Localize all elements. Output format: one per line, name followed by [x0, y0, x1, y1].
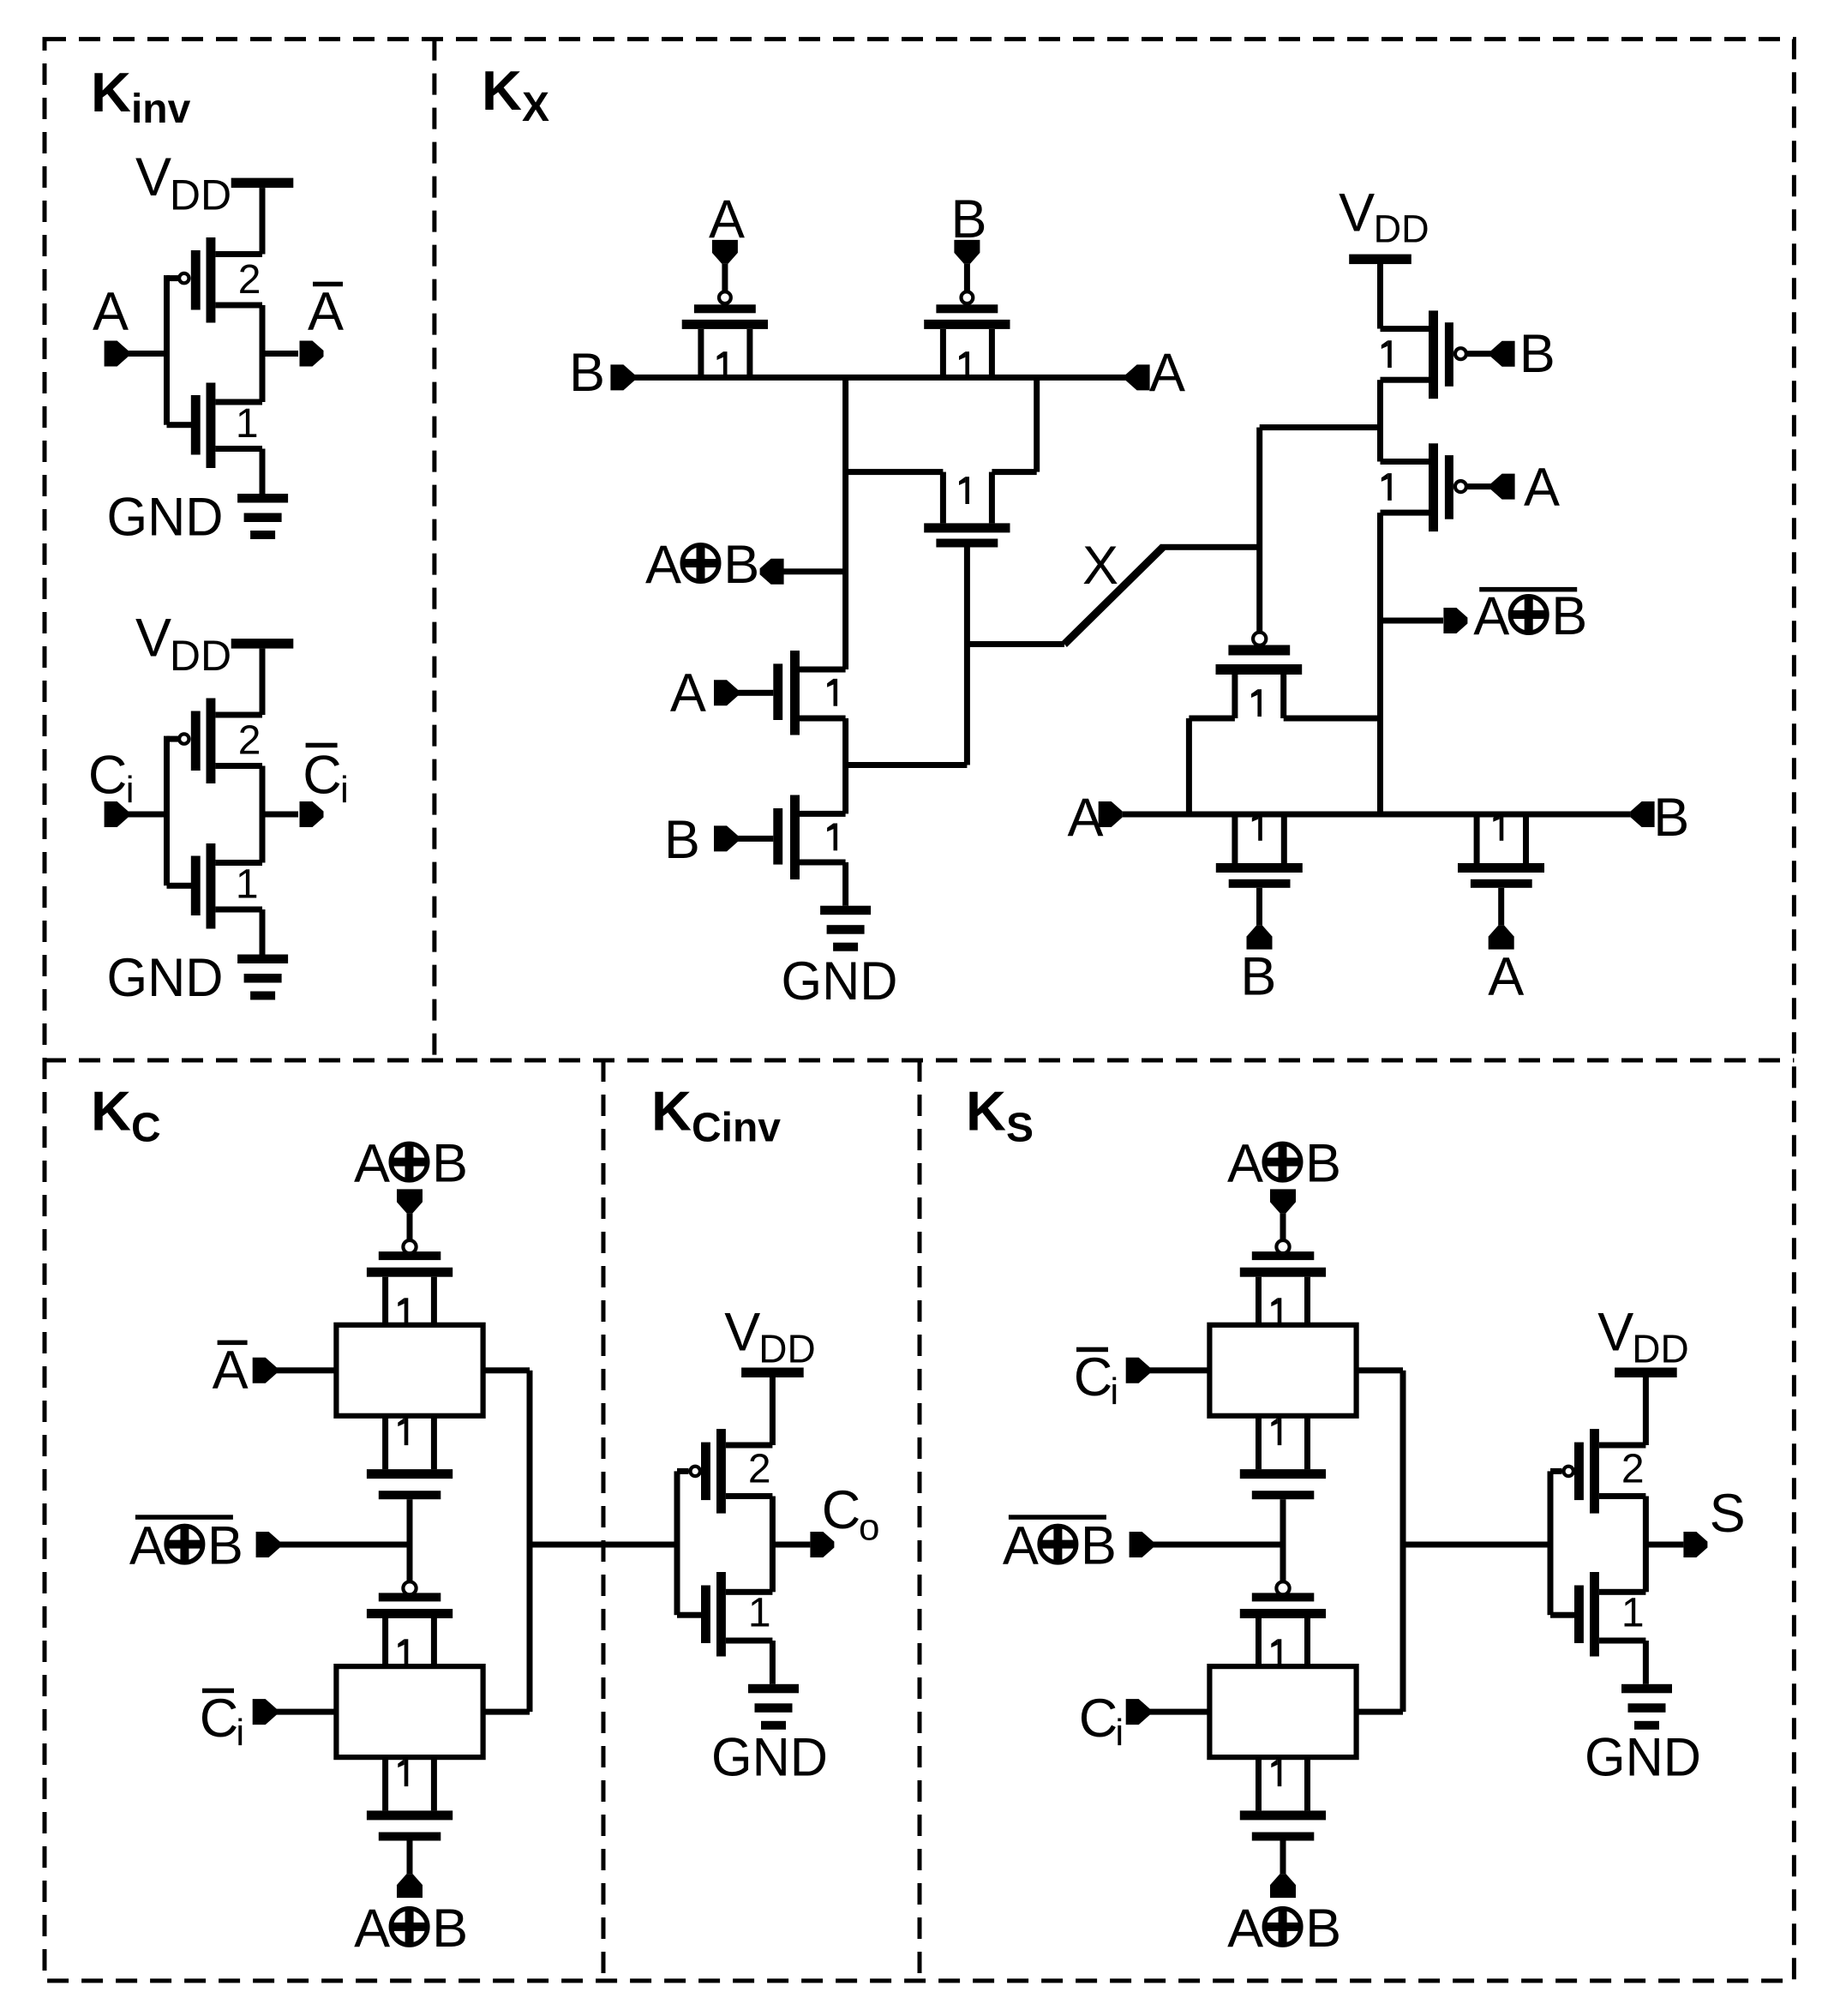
section label K_S [966, 1080, 1034, 1151]
svg-text:A: A [1227, 1899, 1263, 1959]
svg-text:C: C [200, 1689, 239, 1749]
GND label (K_X) [782, 951, 898, 1011]
svg-text:1: 1 [236, 401, 259, 447]
nmos 1 (K_S inverter U4) [1574, 1572, 1645, 1657]
svg-text:B: B [1653, 788, 1689, 848]
svg-text:B: B [723, 535, 759, 595]
width label 1 (TG2 nmos, K_S) [1271, 1759, 1281, 1786]
wire VDD to pmos (K_Cinv inverter U3) [770, 1377, 776, 1445]
svg-text:V: V [135, 608, 171, 668]
svg-text:2: 2 [238, 718, 261, 764]
wire VDD to inverter U1 PMOS source [260, 188, 266, 254]
svg-text:GND: GND [711, 1728, 828, 1788]
width label 1 (M4) [959, 351, 969, 379]
svg-text:DD: DD [1632, 1327, 1688, 1371]
transmission gate TG1 body (K_C) [336, 1325, 482, 1416]
svg-text:A: A [1149, 343, 1185, 403]
svg-text:X: X [1082, 536, 1118, 596]
svg-text:B: B [1551, 586, 1587, 646]
svg-text:A: A [93, 282, 129, 342]
wire node X (diagonal) [967, 544, 1259, 647]
wire input to gates (inverter U2) [128, 736, 191, 889]
transmission gate TG1 pmos (K_C) [367, 1240, 453, 1325]
svg-text:A: A [308, 282, 344, 342]
input port A (left of node n2) [1068, 788, 1123, 848]
svg-text:2: 2 [748, 1447, 771, 1492]
wire VDD to pmos (K_S inverter U4) [1643, 1377, 1649, 1445]
svg-text:DD: DD [170, 632, 231, 680]
input port A (gate of M1) [670, 663, 773, 723]
node label X [1082, 536, 1118, 596]
pmos M4 (gate B, horizontal) [924, 291, 1010, 377]
svg-text:GND: GND [107, 948, 224, 1008]
VDD symbol (inverter U2) [135, 608, 293, 680]
output port (K_S inverter U4) [1683, 1484, 1745, 1557]
wire select to gates (K_C) [279, 1542, 410, 1548]
wire TG2 nmos gate down (K_S) [1280, 1841, 1286, 1875]
svg-text:DD: DD [170, 171, 231, 219]
input port Ci-bar (K_S TG1) [1074, 1347, 1150, 1413]
wire node n2 (bottom row) [1123, 812, 1631, 818]
width label 1 (TG1 pmos, K_C) [398, 1298, 408, 1325]
svg-text:B: B [432, 1899, 468, 1959]
width label 1 (TG2 nmos, K_C) [398, 1759, 408, 1786]
input port B (right of node n2) [1631, 788, 1690, 848]
wire output node (K_S inverter U4) [1643, 1497, 1684, 1593]
svg-text:GND: GND [782, 951, 898, 1011]
wire TG2 right to rail (K_S) [1357, 1709, 1403, 1715]
wire A to M3 gate bubble [722, 264, 728, 291]
svg-text:GND: GND [107, 488, 224, 548]
input port Ci-bar (K_C TG2) [200, 1689, 277, 1754]
wire output rail (K_C) [527, 1371, 533, 1712]
width label 1 (M8) [1251, 689, 1262, 717]
transmission gate TG1 nmos (K_S) [1240, 1416, 1326, 1499]
width label 1 (M2) [827, 824, 837, 851]
output port A-xor-B [645, 535, 846, 595]
GND label (K_Cinv inverter U3) [711, 1728, 828, 1788]
svg-text:C: C [1079, 1689, 1118, 1749]
transmission gate TG2 nmos (K_C) [367, 1757, 453, 1840]
nmos 1 (K_Cinv inverter U3) [701, 1572, 772, 1657]
svg-text:V: V [135, 147, 171, 207]
pmos M3 (gate A, horizontal) [682, 291, 768, 377]
svg-text:A: A [1227, 1134, 1263, 1194]
width label 1 (K_Cinv inverter U3) [748, 1591, 771, 1636]
wire TG1 right to rail (K_S) [1357, 1367, 1403, 1373]
svg-text:o: o [859, 1506, 879, 1548]
wire TG1 left (K_S) [1149, 1367, 1209, 1373]
svg-text:1: 1 [748, 1591, 771, 1636]
wire NMOS source to ground (inverter U1) [260, 449, 266, 495]
wire TG2 left (K_C) [276, 1709, 336, 1715]
nmos 1 (inverter U1 pull-down) [191, 383, 262, 469]
wire to TG1 pmos gate (K_S) [1280, 1213, 1286, 1239]
width label 1 (TG1 nmos, K_C) [398, 1418, 408, 1445]
wire M8 left lead down to node n2 [1186, 716, 1235, 815]
pmos M7 (gate A, right column) [1381, 443, 1492, 531]
pmos 2 (inverter U1 pull-up) [179, 237, 262, 323]
section label K_Cinv [651, 1080, 781, 1151]
GND label (inverter U2) [107, 948, 224, 1008]
section label K_inv [91, 61, 191, 132]
svg-text:i: i [126, 769, 135, 811]
input port A (inverter U1) [93, 282, 129, 367]
wire inverter input gates (K_Cinv inverter U3) [674, 1468, 702, 1618]
input port B (gate of M2) [664, 810, 773, 870]
wire to TG1 pmos gate (K_C) [407, 1213, 413, 1239]
transmission gate TG2 pmos (K_S) [1240, 1581, 1326, 1666]
wire M5 gate down to nmos chain [964, 547, 970, 765]
wire M1 source to M2 drain [842, 718, 848, 813]
svg-text:B: B [1081, 1516, 1117, 1576]
width label 1 (TG2 pmos, K_S) [1271, 1639, 1281, 1666]
svg-text:DD: DD [1374, 207, 1429, 251]
pmos 2 (K_Cinv inverter U3) [691, 1429, 773, 1514]
svg-text:A: A [1473, 586, 1509, 646]
nmos M1 (gate A) [773, 651, 845, 735]
pmos M8 (xnor pull-up pair, gate X) [1216, 633, 1303, 718]
pmos 2 (inverter U2 pull-up) [179, 699, 262, 784]
svg-text:A: A [354, 1134, 390, 1194]
output port Ci-bar (inverter U2) [300, 743, 349, 827]
ground (inverter U2) [237, 955, 288, 1000]
wire TG2 left (K_S) [1149, 1709, 1209, 1715]
width label 1 (inverter U2 nmos) [236, 862, 259, 908]
output port A-xor-B-bar [1381, 586, 1588, 646]
wire TG2 nmos gate down (K_C) [407, 1841, 413, 1875]
width label 1 (M3) [717, 351, 728, 379]
wire nmos to ground (K_S inverter U4) [1643, 1641, 1649, 1684]
width label 1 (M6) [1381, 340, 1392, 368]
svg-text:B: B [1519, 324, 1555, 384]
svg-text:B: B [569, 343, 605, 403]
wire TG1 nmos gate to TG2 pmos gate (K_S) [1280, 1499, 1286, 1581]
width label 1 (K_S inverter U4) [1621, 1591, 1645, 1636]
svg-text:i: i [1115, 1712, 1124, 1754]
VDD symbol (K_S inverter U4) [1597, 1303, 1689, 1378]
input port A-bar (K_C TG1) [213, 1341, 277, 1401]
svg-text:B: B [1240, 947, 1276, 1007]
wire TG1 nmos gate to TG2 pmos gate (K_C) [407, 1499, 413, 1581]
svg-text:A: A [1003, 1516, 1039, 1576]
wire TG1 right to rail (K_C) [483, 1367, 530, 1373]
input port B (left of M3) [569, 343, 634, 403]
svg-text:A: A [1488, 947, 1524, 1007]
ground (K_S inverter U4) [1621, 1684, 1672, 1730]
input port A-xor-B (top gate, K_S) [1227, 1134, 1341, 1214]
wire xnor rail (M7 down to output row) [1377, 513, 1383, 817]
GND label (K_S inverter U4) [1585, 1728, 1701, 1788]
wire nmos to ground (K_Cinv inverter U3) [770, 1641, 776, 1684]
input port A (gate of M7) [1491, 458, 1560, 518]
nmos 1 (inverter U2 pull-down) [191, 843, 262, 929]
svg-text:A: A [354, 1899, 390, 1959]
svg-text:2: 2 [1621, 1447, 1645, 1492]
svg-text:B: B [432, 1134, 468, 1194]
svg-text:C: C [822, 1480, 861, 1540]
input port A (top, gate of M3) [709, 189, 745, 264]
width label 1 (M1) [827, 679, 837, 706]
wire node n1 (B-A pass row) [633, 375, 1126, 381]
svg-text:i: i [236, 1712, 244, 1754]
input port A-xor-B (bottom gate, K_C) [354, 1874, 468, 1959]
wire input to gates (inverter U1) [128, 275, 191, 428]
wire NMOS source to ground (inverter U2) [260, 909, 266, 955]
VDD symbol (K_X) [1339, 183, 1429, 264]
input port B (gate of M6) [1491, 324, 1555, 384]
svg-text:GND: GND [1585, 1728, 1701, 1788]
svg-text:S: S [1710, 1484, 1746, 1544]
svg-text:C: C [1074, 1347, 1113, 1407]
ground (inverter U1) [237, 494, 288, 539]
transmission gate TG2 body (K_C) [336, 1666, 482, 1757]
transmission gate TG1 body (K_S) [1209, 1325, 1356, 1416]
nmos M10 (gate A, bottom) [1458, 814, 1544, 888]
input port A (gate of M10) [1488, 888, 1524, 1007]
wire output rail (K_S) [1400, 1371, 1406, 1712]
wire TG2 right to rail (K_C) [483, 1709, 530, 1715]
wire node X to rail branch [1256, 424, 1380, 631]
wire TG1 left (K_C) [276, 1367, 336, 1373]
transmission gate TG2 body (K_S) [1209, 1666, 1356, 1757]
width label 2 (inverter U2 pmos) [238, 718, 261, 764]
width label 2 (K_Cinv inverter U3) [748, 1447, 771, 1492]
wire B to M4 gate bubble [964, 264, 970, 291]
width label 1 (M9) [1252, 813, 1262, 841]
wire VDD to M6 [1377, 261, 1383, 329]
transmission gate TG2 pmos (K_C) [367, 1581, 453, 1666]
wire M5 left lead to n1 drop [846, 469, 944, 475]
input port A-xor-B (bottom gate, K_S) [1227, 1874, 1341, 1959]
wire M6 to M7 [1377, 380, 1383, 461]
wire node X tap to nmos junction [846, 762, 968, 768]
wire M5 right lead up to node n1 [992, 377, 1040, 475]
svg-text:A: A [1068, 788, 1104, 848]
pmos M6 (gate B, right column) [1381, 310, 1492, 399]
width label 1 (TG1 pmos, K_S) [1271, 1298, 1281, 1325]
svg-text:i: i [1110, 1371, 1118, 1413]
svg-text:A: A [213, 1341, 249, 1401]
wire output node (K_Cinv inverter U3) [770, 1497, 811, 1593]
width label 2 (K_S inverter U4) [1621, 1447, 1645, 1492]
ground (K_X) [820, 906, 871, 951]
width label 2 (inverter U1 pmos) [238, 257, 261, 303]
svg-text:B: B [1305, 1134, 1341, 1194]
output port (K_Cinv inverter U3) [810, 1480, 879, 1557]
transmission gate TG1 nmos (K_C) [367, 1416, 453, 1499]
wire inverter input gates (K_S inverter U4) [1548, 1468, 1575, 1618]
svg-text:V: V [724, 1303, 760, 1363]
input port A-xor-B-bar (K_C select) [129, 1515, 280, 1575]
svg-text:DD: DD [758, 1327, 815, 1371]
svg-text:C: C [88, 746, 127, 806]
wire select to gates (K_S) [1153, 1542, 1283, 1548]
svg-text:B: B [1305, 1899, 1341, 1959]
svg-text:i: i [340, 769, 349, 811]
input port A (right end of pass row) [1126, 343, 1185, 403]
input port C (inverter U2) [88, 746, 135, 827]
svg-text:1: 1 [236, 862, 259, 908]
svg-text:1: 1 [1621, 1591, 1645, 1636]
input port Ci (K_S TG2) [1079, 1689, 1150, 1754]
wire M2 source to ground [842, 862, 848, 906]
wire output node (inverter U1) [260, 305, 299, 402]
wire mux output to inverter input (K_S inverter U4) [1403, 1542, 1550, 1548]
svg-text:2: 2 [238, 257, 261, 303]
wire VDD to inverter U2 PMOS source [260, 649, 266, 715]
width label 1 (inverter U1 nmos) [236, 401, 259, 447]
section label K_X [482, 59, 549, 130]
transmission gate TG1 pmos (K_S) [1240, 1240, 1326, 1325]
width label 1 (TG1 nmos, K_S) [1271, 1418, 1281, 1445]
svg-text:A: A [1524, 458, 1560, 518]
VDD symbol (inverter U1) [135, 147, 293, 219]
svg-text:A: A [670, 663, 706, 723]
nmos M9 (gate B, bottom) [1216, 814, 1303, 888]
transmission gate TG2 nmos (K_S) [1240, 1757, 1326, 1840]
width label 1 (TG2 pmos, K_C) [398, 1639, 408, 1666]
width label 1 (M7) [1381, 473, 1392, 501]
GND label (inverter U1) [107, 488, 224, 548]
svg-text:B: B [207, 1516, 243, 1576]
svg-text:A: A [129, 1516, 165, 1576]
wire M8 right lead to rail [1284, 716, 1381, 722]
wire output node (inverter U2) [260, 766, 299, 863]
input port A-xor-B-bar (K_S select) [1003, 1515, 1154, 1575]
output port A-bar (inverter U1) [300, 282, 345, 367]
nmos M2 (gate B) [773, 795, 845, 880]
pmos 2 (K_S inverter U4) [1564, 1429, 1646, 1514]
svg-text:C: C [303, 746, 342, 806]
ground (K_Cinv inverter U3) [748, 1684, 799, 1730]
width label 1 (M5) [959, 477, 969, 504]
wire mux output to inverter input (K_Cinv inverter U3) [530, 1542, 677, 1548]
svg-text:V: V [1339, 183, 1375, 243]
section label K_C [91, 1080, 161, 1151]
svg-text:V: V [1597, 1303, 1633, 1363]
svg-text:A: A [645, 535, 681, 595]
width label 1 (M10) [1493, 813, 1503, 841]
input port A-xor-B (top gate, K_C) [354, 1134, 468, 1214]
input port B (gate of M9) [1240, 888, 1276, 1007]
wire junction drop (node n1 to A-xor-B rail) [842, 377, 848, 669]
pmos M5 (gate X side pass, flipped) [924, 472, 1010, 548]
input port B (top, gate of M4) [951, 189, 987, 264]
svg-text:B: B [664, 810, 700, 870]
VDD symbol (K_Cinv inverter U3) [724, 1303, 816, 1378]
